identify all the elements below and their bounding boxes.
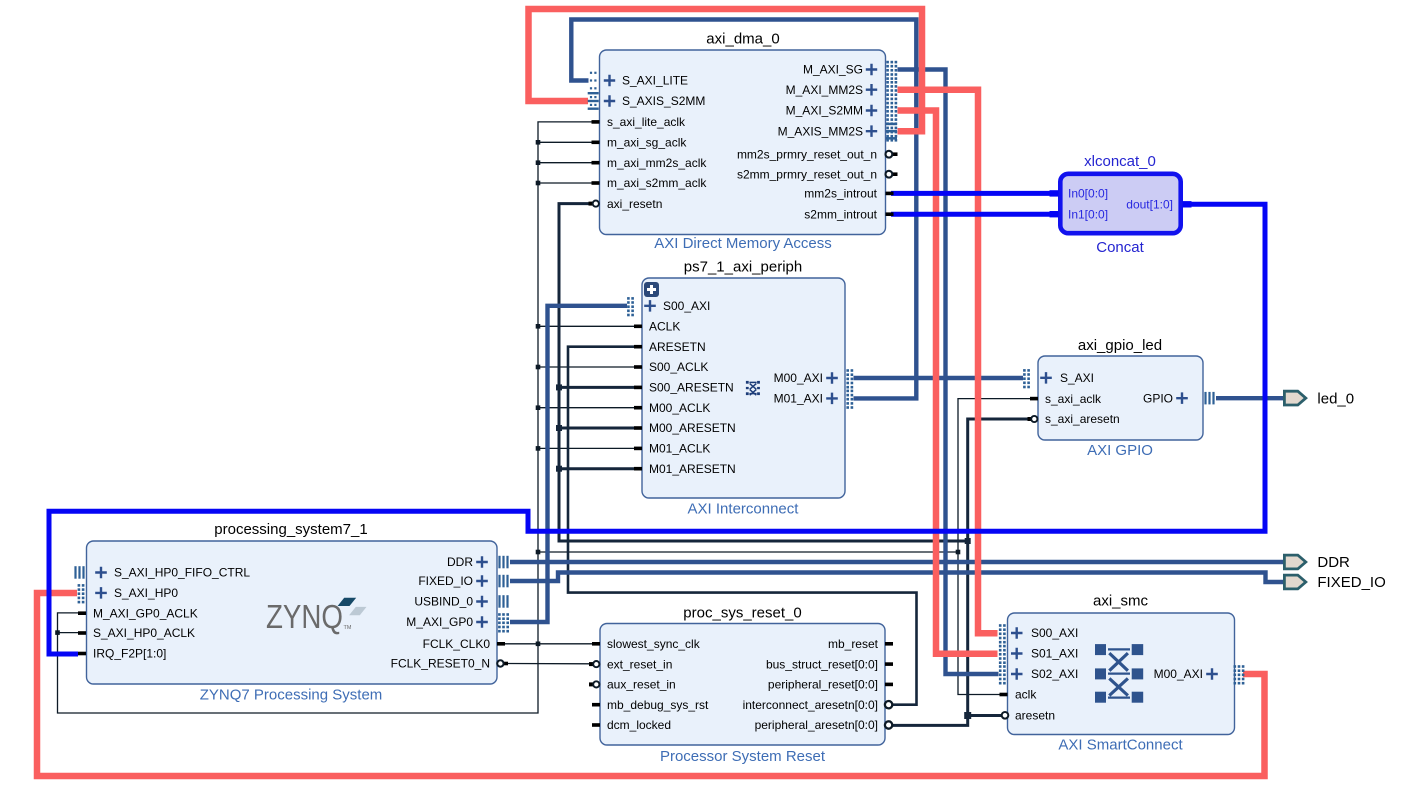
wire clock branch	[538, 325, 636, 327]
junction rst	[556, 466, 562, 472]
svg-text:M_AXI_GP0_ACLK: M_AXI_GP0_ACLK	[93, 606, 198, 620]
pin peripheral_reset[0:0]	[768, 678, 893, 692]
wire clock branch	[538, 162, 594, 164]
svg-text:M01_ACLK: M01_ACLK	[649, 442, 710, 456]
junction clk	[536, 181, 541, 186]
pin M_AXI_S2MM	[786, 102, 898, 121]
interface marks S_AXIS_S2MM	[588, 92, 599, 94]
svg-text:ps7_1_axi_periph: ps7_1_axi_periph	[684, 259, 802, 276]
wire M01_AXI to S_AXI_LITE	[571, 20, 916, 399]
pin In0[0:0]	[1050, 187, 1109, 201]
block ps7_1_axi_periph body	[642, 278, 845, 498]
svg-text:S00_ACLK: S00_ACLK	[649, 360, 708, 374]
svg-text:S_AXI_HP0: S_AXI_HP0	[114, 586, 178, 600]
svg-text:M00_ARESETN: M00_ARESETN	[649, 421, 736, 435]
pin aresetn	[1002, 709, 1055, 723]
wire GPIO to led_0	[1216, 396, 1284, 400]
svg-text:In0[0:0]: In0[0:0]	[1068, 187, 1108, 201]
crossbar icon	[746, 381, 760, 395]
svg-text:slowest_sync_clk: slowest_sync_clk	[607, 637, 701, 651]
svg-text:AXI Direct Memory Access: AXI Direct Memory Access	[654, 235, 832, 252]
junction clk	[536, 365, 541, 370]
svg-text:mm2s_introut: mm2s_introut	[804, 187, 877, 201]
pin aux_reset_in	[589, 678, 676, 692]
svg-text:FIXED_IO: FIXED_IO	[418, 574, 473, 588]
pin FCLK_RESET0_N	[391, 657, 508, 671]
pin slowest_sync_clk	[592, 637, 701, 651]
wire M_AXIS_MM2S to S_AXIS_S2MM	[529, 9, 923, 131]
junction rst	[965, 538, 971, 544]
pin axi_resetn	[589, 197, 663, 211]
wire smc M00_AXI to S_AXI_HP0	[37, 593, 1265, 776]
svg-text:interconnect_aresetn[0:0]: interconnect_aresetn[0:0]	[743, 698, 878, 712]
component xlconcat_0	[1084, 153, 1156, 256]
svg-text:S01_AXI: S01_AXI	[1031, 647, 1078, 661]
wire clock bus main	[58, 122, 595, 713]
pin USBIND_0	[414, 595, 508, 609]
svg-text:ARESETN: ARESETN	[649, 340, 706, 354]
svg-text:bus_struct_reset[0:0]: bus_struct_reset[0:0]	[766, 657, 878, 671]
svg-text:S_AXI_HP0_FIFO_CTRL: S_AXI_HP0_FIFO_CTRL	[114, 566, 250, 580]
svg-text:AXI GPIO: AXI GPIO	[1087, 442, 1153, 459]
svg-text:s_axi_aclk: s_axi_aclk	[1045, 392, 1102, 406]
pin M00_ACLK	[634, 401, 710, 415]
pin M_AXI_SG	[803, 61, 897, 80]
pin S00_AXI	[999, 624, 1078, 643]
pin IRQ_F2P[1:0]	[78, 647, 166, 661]
svg-text:aux_reset_in: aux_reset_in	[607, 678, 676, 692]
junction clk	[536, 446, 541, 451]
svg-text:m_axi_sg_aclk: m_axi_sg_aclk	[607, 136, 687, 150]
pin m_axi_s2mm_aclk	[592, 176, 708, 190]
svg-text:axi_gpio_led: axi_gpio_led	[1078, 337, 1162, 354]
svg-text:mm2s_prmry_reset_out_n: mm2s_prmry_reset_out_n	[737, 147, 877, 161]
pin ext_reset_in	[589, 657, 672, 671]
external port FIXED_IO	[1284, 574, 1385, 591]
junction rst	[556, 425, 562, 431]
svg-text:aclk: aclk	[1015, 688, 1037, 702]
pin FCLK_CLK0	[423, 637, 505, 651]
svg-text:Processor System Reset: Processor System Reset	[660, 748, 826, 765]
pin S_AXI_HP0_ACLK	[78, 626, 195, 640]
component axi_dma_0	[654, 31, 832, 253]
pin mb_debug_sys_rst	[592, 698, 709, 712]
svg-text:S_AXI_HP0_ACLK: S_AXI_HP0_ACLK	[93, 626, 195, 640]
pin mm2s_introut	[804, 187, 893, 201]
svg-text:ZYNQ: ZYNQ	[266, 598, 343, 635]
external port led_0	[1284, 390, 1354, 407]
interface marks S02_AXI	[999, 665, 1002, 668]
interface marks USBIND_0	[498, 595, 500, 608]
svg-text:mb_debug_sys_rst: mb_debug_sys_rst	[607, 698, 709, 712]
svg-text:S00_AXI: S00_AXI	[663, 299, 710, 313]
interface marks M01_AXI	[846, 390, 849, 393]
svg-text:M01_AXI: M01_AXI	[774, 392, 823, 406]
pin M_AXI_MM2S	[786, 81, 898, 100]
interface marks M_AXI_MM2S	[886, 81, 889, 84]
svg-text:M_AXI_SG: M_AXI_SG	[803, 63, 863, 77]
wire dout to IRQ_F2P	[49, 204, 1265, 654]
expand icon	[644, 282, 659, 297]
pin dout[1:0]	[1126, 198, 1191, 212]
svg-text:S_AXI_LITE: S_AXI_LITE	[622, 74, 688, 88]
svg-text:M00_ACLK: M00_ACLK	[649, 401, 710, 415]
wire clock branch	[538, 447, 636, 449]
wire aresetn branch	[559, 467, 636, 470]
pin peripheral_aresetn[0:0]	[755, 718, 893, 732]
pin s_axi_lite_aclk	[592, 115, 687, 129]
svg-text:In1[0:0]: In1[0:0]	[1068, 207, 1108, 221]
pin S_AXI	[1023, 369, 1094, 388]
interface marks FIXED_IO	[498, 575, 500, 588]
svg-text:axi_smc: axi_smc	[1093, 593, 1149, 610]
interface marks M_AXI_GP0	[498, 613, 501, 616]
interface marks S00_AXI	[627, 297, 630, 300]
wire clock branch	[538, 407, 636, 409]
wire clock mid branch	[538, 551, 958, 553]
svg-text:AXI Interconnect: AXI Interconnect	[688, 501, 800, 518]
interface marks M_AXIS_MM2S	[886, 123, 897, 126]
svg-text:FIXED_IO: FIXED_IO	[1317, 574, 1385, 591]
pin In1[0:0]	[1050, 207, 1109, 221]
wire clock branch	[538, 141, 594, 143]
pin S_AXIS_S2MM	[588, 92, 706, 110]
pin S02_AXI	[999, 665, 1078, 684]
svg-text:S02_AXI: S02_AXI	[1031, 667, 1078, 681]
wire M_AXI_S2MM to smc S01_AXI	[898, 111, 998, 654]
wire aresetn branch	[559, 386, 636, 389]
wire peripheral_aresetn riser to gpio aresetn	[892, 419, 1031, 725]
junction rst	[556, 384, 562, 390]
svg-text:GPIO: GPIO	[1143, 391, 1173, 405]
block axi_gpio_led body	[1038, 356, 1203, 440]
interface marks M_AXIS_MM2S	[886, 122, 889, 125]
pin FIXED_IO	[418, 574, 508, 588]
svg-text:USBIND_0: USBIND_0	[414, 595, 473, 609]
interface marks GPIO	[1204, 392, 1206, 405]
interface marks S_AXI	[1023, 369, 1026, 372]
svg-text:M00_AXI: M00_AXI	[1154, 667, 1203, 681]
svg-text:m_axi_s2mm_aclk: m_axi_s2mm_aclk	[607, 176, 707, 190]
pin S00_ARESETN	[634, 381, 734, 395]
wire clock to S_AXI_HP0_ACLK	[58, 632, 80, 634]
pin m_axi_mm2s_aclk	[592, 156, 708, 170]
svg-text:dcm_locked: dcm_locked	[607, 718, 671, 732]
svg-text:M_AXIS_MM2S: M_AXIS_MM2S	[778, 124, 863, 138]
junction clk	[55, 630, 60, 635]
wire aresetn branch	[559, 427, 636, 430]
svg-text:ACLK: ACLK	[649, 320, 680, 334]
wire aresetn bus left to axi_resetn	[559, 204, 968, 541]
svg-text:ZYNQ7 Processing System: ZYNQ7 Processing System	[200, 687, 383, 704]
svg-text:FCLK_RESET0_N: FCLK_RESET0_N	[391, 657, 490, 671]
svg-text:axi_dma_0: axi_dma_0	[706, 31, 779, 48]
pin S00_AXI	[627, 297, 710, 316]
svg-text:processing_system7_1: processing_system7_1	[214, 521, 367, 538]
pin GPIO	[1143, 391, 1215, 405]
pin s2mm_prmry_reset_out_n	[737, 167, 898, 181]
interface marks S00_AXI	[999, 624, 1002, 627]
svg-text:DDR: DDR	[447, 555, 473, 569]
svg-text:xlconcat_0: xlconcat_0	[1084, 153, 1156, 170]
interface marks S_AXI_HP0_FIFO_CTRL	[74, 566, 76, 579]
wire s2mm_introut to In1	[891, 212, 1051, 217]
wire to smc aresetn	[968, 714, 1001, 717]
ZYNQ logo	[266, 598, 367, 635]
pin S_AXI_HP0_FIFO_CTRL	[74, 566, 250, 580]
wire mm2s_introut to In0	[891, 191, 1051, 196]
pin mm2s_prmry_reset_out_n	[737, 147, 898, 161]
pin dcm_locked	[592, 718, 671, 732]
pin s2mm_introut	[804, 207, 893, 221]
svg-text:FCLK_CLK0: FCLK_CLK0	[423, 637, 491, 651]
svg-text:M00_AXI: M00_AXI	[774, 371, 823, 385]
interface marks DDR	[498, 556, 500, 569]
svg-text:proc_sys_reset_0: proc_sys_reset_0	[683, 605, 801, 622]
svg-text:peripheral_aresetn[0:0]: peripheral_aresetn[0:0]	[755, 718, 878, 732]
svg-text:S00_ARESETN: S00_ARESETN	[649, 381, 734, 395]
pin DDR	[447, 555, 509, 569]
block proc_sys_reset_0 body	[600, 624, 885, 746]
pin mb_reset	[828, 637, 893, 651]
interface marks M00_AXI	[846, 369, 849, 372]
wire M00_AXI to gpio S_AXI	[854, 376, 1024, 380]
svg-text:IRQ_F2P[1:0]: IRQ_F2P[1:0]	[93, 647, 166, 661]
svg-text:M01_ARESETN: M01_ARESETN	[649, 462, 736, 476]
block axi_smc body	[1008, 613, 1235, 735]
wire clock to slowest_sync_clk	[538, 643, 593, 645]
component axi_gpio_led	[1078, 337, 1162, 459]
interface marks M_AXI_S2MM	[886, 102, 889, 105]
interface marks S01_AXI	[999, 645, 1002, 648]
wire FCLK_RESET0_N to ext_reset_in	[505, 663, 591, 665]
svg-text:M_AXI_S2MM: M_AXI_S2MM	[786, 104, 863, 118]
block processing_system7_1 body	[87, 541, 498, 684]
svg-text:axi_resetn: axi_resetn	[607, 197, 662, 211]
svg-text:S_AXIS_S2MM: S_AXIS_S2MM	[622, 94, 705, 108]
wire M_AXI_MM2S to smc S00_AXI	[898, 90, 998, 634]
component proc_sys_reset_0	[660, 605, 826, 766]
pin M_AXI_GP0_ACLK	[78, 606, 198, 620]
wire M_AXI_GP0 to S00_AXI	[510, 306, 627, 622]
interface marks M00_AXI	[1234, 665, 1237, 668]
junction clk	[536, 140, 541, 145]
pin S_AXI_LITE	[590, 72, 688, 90]
wire clock branch	[538, 366, 636, 368]
external port DDR	[1284, 554, 1350, 571]
pin ACLK	[634, 320, 680, 334]
interface marks S_AXI_LITE	[590, 72, 592, 74]
interface marks S_AXI_HP0	[78, 584, 81, 587]
svg-text:dout[1:0]: dout[1:0]	[1126, 198, 1173, 212]
svg-text:peripheral_reset[0:0]: peripheral_reset[0:0]	[768, 678, 878, 692]
wire M_AXI_SG to smc S02_AXI	[898, 70, 999, 675]
pin M_AXI_GP0	[406, 613, 509, 632]
wire FIXED_IO net	[510, 573, 1283, 583]
svg-text:s_axi_aresetn: s_axi_aresetn	[1045, 412, 1120, 426]
wire DDR net	[510, 560, 1284, 564]
svg-text:Concat: Concat	[1096, 239, 1144, 256]
pin m_axi_sg_aclk	[592, 136, 688, 150]
pin M01_AXI	[774, 390, 854, 409]
wire clock branch	[538, 182, 594, 184]
pin bus_struct_reset[0:0]	[766, 657, 893, 671]
block axi_dma_0 body	[600, 50, 886, 235]
pin M01_ACLK	[634, 442, 710, 456]
pin s_axi_aresetn	[1028, 412, 1120, 426]
svg-text:AXI SmartConnect: AXI SmartConnect	[1058, 737, 1183, 754]
component ps7_1_axi_periph	[684, 259, 802, 518]
junction clk	[536, 550, 541, 555]
svg-text:M_AXI_MM2S: M_AXI_MM2S	[786, 83, 863, 97]
wire interconnect_aresetn to ARESETN	[568, 347, 917, 705]
svg-text:m_axi_mm2s_aclk: m_axi_mm2s_aclk	[607, 156, 707, 170]
block xlconcat_0 body (selected)	[1060, 174, 1180, 233]
component axi_smc	[1058, 593, 1183, 754]
svg-text:DDR: DDR	[1317, 554, 1350, 571]
pin S_AXI_HP0	[78, 584, 179, 603]
pin M00_AXI	[774, 369, 854, 388]
component processing_system7_1	[200, 521, 383, 704]
svg-text:s_axi_lite_aclk: s_axi_lite_aclk	[607, 115, 686, 129]
svg-text:ext_reset_in: ext_reset_in	[607, 657, 672, 671]
svg-text:s2mm_prmry_reset_out_n: s2mm_prmry_reset_out_n	[737, 167, 877, 181]
junction clk	[536, 642, 541, 647]
pin ARESETN	[634, 340, 706, 354]
pin M_AXIS_MM2S	[778, 122, 898, 141]
svg-text:TM: TM	[344, 625, 352, 631]
svg-text:S00_AXI: S00_AXI	[1031, 626, 1078, 640]
junction clk	[536, 405, 541, 410]
pin M01_ARESETN	[634, 462, 736, 476]
pin S00_ACLK	[634, 360, 708, 374]
wire clock to gpio aclk and smc aclk	[958, 399, 1031, 695]
svg-text:S_AXI: S_AXI	[1060, 371, 1094, 385]
svg-text:mb_reset: mb_reset	[828, 637, 879, 651]
pin M00_AXI	[1154, 665, 1245, 684]
interface marks M_AXI_SG	[886, 61, 889, 64]
junction clk	[536, 160, 541, 165]
svg-text:s2mm_introut: s2mm_introut	[804, 207, 877, 221]
svg-text:led_0: led_0	[1317, 390, 1354, 407]
pin S01_AXI	[999, 645, 1078, 664]
svg-text:aresetn: aresetn	[1015, 709, 1055, 723]
smartconnect icon	[1095, 644, 1143, 703]
pin s_axi_aclk	[1030, 392, 1102, 406]
pin M00_ARESETN	[634, 421, 736, 435]
wire FCLK_CLK0 to junction	[504, 643, 538, 645]
pin interconnect_aresetn[0:0]	[743, 698, 893, 712]
junction clk	[536, 324, 541, 329]
svg-text:M_AXI_GP0: M_AXI_GP0	[406, 615, 473, 629]
pin aclk	[1000, 688, 1038, 702]
junction rst	[964, 712, 971, 719]
junction clk	[956, 550, 961, 555]
